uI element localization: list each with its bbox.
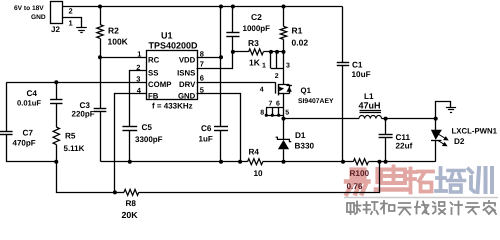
node VIN-R2	[98, 5, 102, 9]
node output-C11	[384, 117, 388, 121]
svg-text:TPS40200D: TPS40200D	[149, 41, 199, 51]
capacitor C6	[220, 7, 222, 127]
wire switch node to L1	[284, 118, 360, 120]
watermark char 5	[469, 169, 475, 192]
svg-text:470pF: 470pF	[13, 139, 36, 148]
node D1-gnd	[282, 160, 286, 164]
svg-text:2: 2	[69, 7, 73, 16]
node RC	[98, 55, 102, 59]
svg-text:6V to 18V: 6V to 18V	[14, 5, 44, 12]
capacitor C3	[100, 57, 102, 108]
wire VIN top rail	[63, 6, 343, 8]
node GNDpin-gnd	[238, 160, 242, 164]
svg-text:LXCL-PWN1: LXCL-PWN1	[452, 126, 498, 135]
resistor R100	[353, 159, 368, 165]
capacitor C5	[122, 126, 137, 128]
capacitor C11	[385, 119, 387, 135]
node output-D2	[434, 117, 438, 121]
resistor R5	[53, 127, 59, 145]
node switch	[282, 117, 286, 121]
svg-text:7: 7	[269, 101, 273, 108]
svg-text:U1: U1	[161, 31, 173, 41]
svg-text:1000pF: 1000pF	[243, 24, 271, 33]
node VIN-R1	[282, 5, 286, 9]
wire GND pin5	[197, 94, 241, 162]
svg-text:6: 6	[276, 101, 280, 108]
wire VIN to C1	[342, 7, 344, 63]
node C6-gnd	[219, 160, 223, 164]
svg-text:1K: 1K	[249, 58, 261, 68]
LED D2	[435, 119, 437, 130]
resistor R8	[115, 192, 124, 194]
capacitor C4	[56, 82, 58, 100]
wire VDD pin8	[197, 57, 221, 59]
resistor R1	[283, 7, 285, 27]
wire D2 anode branch	[436, 102, 451, 119]
svg-text:1: 1	[262, 63, 266, 70]
svg-text:GND: GND	[31, 14, 46, 21]
wire FB pin4	[115, 94, 147, 193]
svg-text:10uF: 10uF	[352, 70, 371, 79]
wire L1 to output	[382, 118, 436, 120]
svg-text:COMP: COMP	[148, 80, 171, 89]
resistor R4	[248, 159, 263, 165]
wire C1 to ground rail	[342, 66, 344, 162]
diode D1	[283, 119, 285, 140]
svg-text:3: 3	[286, 63, 290, 70]
watermark char 4	[436, 168, 446, 191]
node R5-C7	[54, 160, 58, 164]
node sense tap	[378, 160, 382, 164]
svg-text:C5: C5	[142, 123, 153, 132]
svg-text:VDD: VDD	[179, 56, 196, 65]
svg-text:D2: D2	[454, 137, 465, 146]
wire Q1 source bracket	[270, 52, 272, 69]
svg-text:2: 2	[275, 73, 279, 80]
svg-text:C6: C6	[201, 124, 212, 133]
connector J2	[51, 2, 63, 24]
watermark char 1	[352, 170, 365, 178]
transistor Q1	[275, 82, 277, 93]
watermark slogan	[347, 202, 361, 215]
wire Q1 source lead	[283, 52, 285, 85]
wire J2 pin1 to ground	[63, 18, 82, 28]
wire COMP pin3	[6, 82, 146, 84]
svg-text:SS: SS	[148, 69, 158, 78]
svg-text:R1: R1	[292, 26, 303, 36]
svg-text:C1: C1	[352, 61, 363, 70]
capacitor C1	[337, 62, 349, 64]
svg-text:DRV: DRV	[179, 80, 196, 89]
svg-text:R100: R100	[350, 169, 370, 178]
wire ground rail	[101, 161, 248, 163]
svg-text:R2: R2	[108, 26, 119, 36]
inductor L1	[359, 115, 382, 118]
node Q1 source pins	[269, 50, 273, 54]
wire ISNS pin7	[197, 52, 233, 69]
svg-text:RC: RC	[148, 56, 160, 65]
svg-text:4: 4	[260, 87, 264, 94]
svg-text:B330: B330	[295, 142, 315, 151]
svg-text:GND: GND	[178, 92, 196, 101]
node VIN-VDD	[219, 5, 223, 9]
svg-text:C7: C7	[23, 128, 34, 137]
node VDD	[219, 55, 223, 59]
svg-text:Q1: Q1	[301, 86, 312, 95]
svg-text:f = 433KHz: f = 433KHz	[152, 102, 193, 111]
svg-text:3300pF: 3300pF	[135, 135, 163, 144]
capacitor C7	[6, 83, 8, 132]
svg-text:6: 6	[200, 73, 204, 82]
svg-text:1: 1	[137, 50, 141, 59]
svg-text:R3: R3	[248, 38, 259, 48]
watermark char 3	[406, 169, 416, 193]
node Q1 drain pins	[265, 114, 268, 117]
svg-text:220pF: 220pF	[72, 110, 95, 119]
svg-text:FB: FB	[148, 92, 159, 101]
node C1-gnd	[341, 160, 345, 164]
svg-text:7: 7	[200, 59, 204, 68]
wire SS pin2	[130, 71, 147, 127]
node FB-R8	[113, 190, 117, 194]
IC U1 TPS40200D	[147, 51, 198, 100]
capacitor C2	[232, 7, 234, 33]
svg-text:47uH: 47uH	[359, 101, 381, 111]
wire DRV to gate	[197, 82, 276, 84]
svg-text:R8: R8	[126, 199, 137, 208]
watermark char 2	[375, 169, 379, 182]
svg-text:0.01uF: 0.01uF	[17, 99, 41, 108]
svg-text:5: 5	[285, 109, 289, 116]
node C5-gnd	[128, 160, 132, 164]
svg-text:5.11K: 5.11K	[64, 144, 85, 153]
watermark rule	[344, 197, 498, 199]
svg-text:10: 10	[254, 169, 264, 178]
ground (input)	[76, 27, 87, 29]
svg-text:L1: L1	[364, 92, 374, 101]
svg-text:22uf: 22uf	[396, 142, 413, 151]
svg-text:0.02: 0.02	[292, 38, 309, 48]
node VIN-C2	[231, 5, 235, 9]
svg-text:100K: 100K	[108, 37, 129, 47]
svg-text:C2: C2	[251, 12, 262, 22]
svg-text:1uF: 1uF	[199, 135, 213, 144]
svg-text:0.76: 0.76	[347, 182, 363, 191]
svg-text:D1: D1	[295, 131, 306, 140]
svg-text:SI9407AEY: SI9407AEY	[298, 98, 334, 105]
node C11-gnd	[384, 160, 388, 164]
resistor R2	[100, 7, 102, 25]
node ISNS-R3	[231, 50, 235, 54]
node COMP-C4	[54, 80, 58, 84]
wire RC pin1	[100, 57, 146, 59]
svg-text:J2: J2	[51, 25, 60, 34]
wire Q1 drain bracket	[266, 107, 284, 109]
svg-text:20K: 20K	[122, 210, 139, 219]
wire R8 to sense node	[139, 162, 380, 193]
svg-text:8: 8	[260, 109, 264, 116]
svg-text:ISNS: ISNS	[177, 69, 195, 78]
wire Q1 drain lead	[283, 94, 285, 119]
svg-text:R5: R5	[65, 132, 76, 141]
resistor R3	[233, 51, 249, 53]
ground (output)	[446, 107, 456, 109]
svg-text:1: 1	[69, 19, 73, 28]
svg-text:R4: R4	[249, 148, 260, 157]
svg-text:C4: C4	[27, 89, 38, 98]
